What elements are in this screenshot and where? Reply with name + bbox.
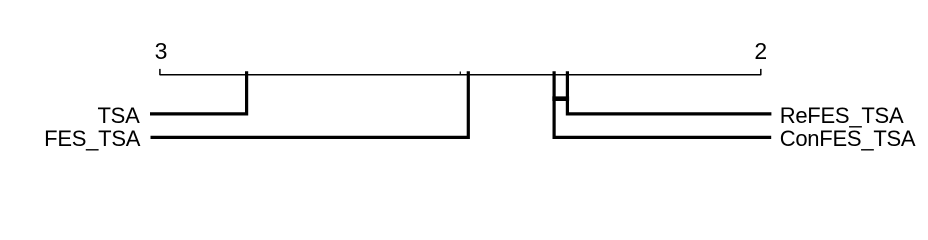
svg-text:2: 2 [754,38,767,64]
svg-text:ReFES_TSA: ReFES_TSA [780,103,904,128]
svg-text:3: 3 [155,38,168,64]
svg-text:TSA: TSA [97,103,140,128]
svg-text:FES_TSA: FES_TSA [44,126,141,151]
svg-text:ConFES_TSA: ConFES_TSA [780,126,916,151]
